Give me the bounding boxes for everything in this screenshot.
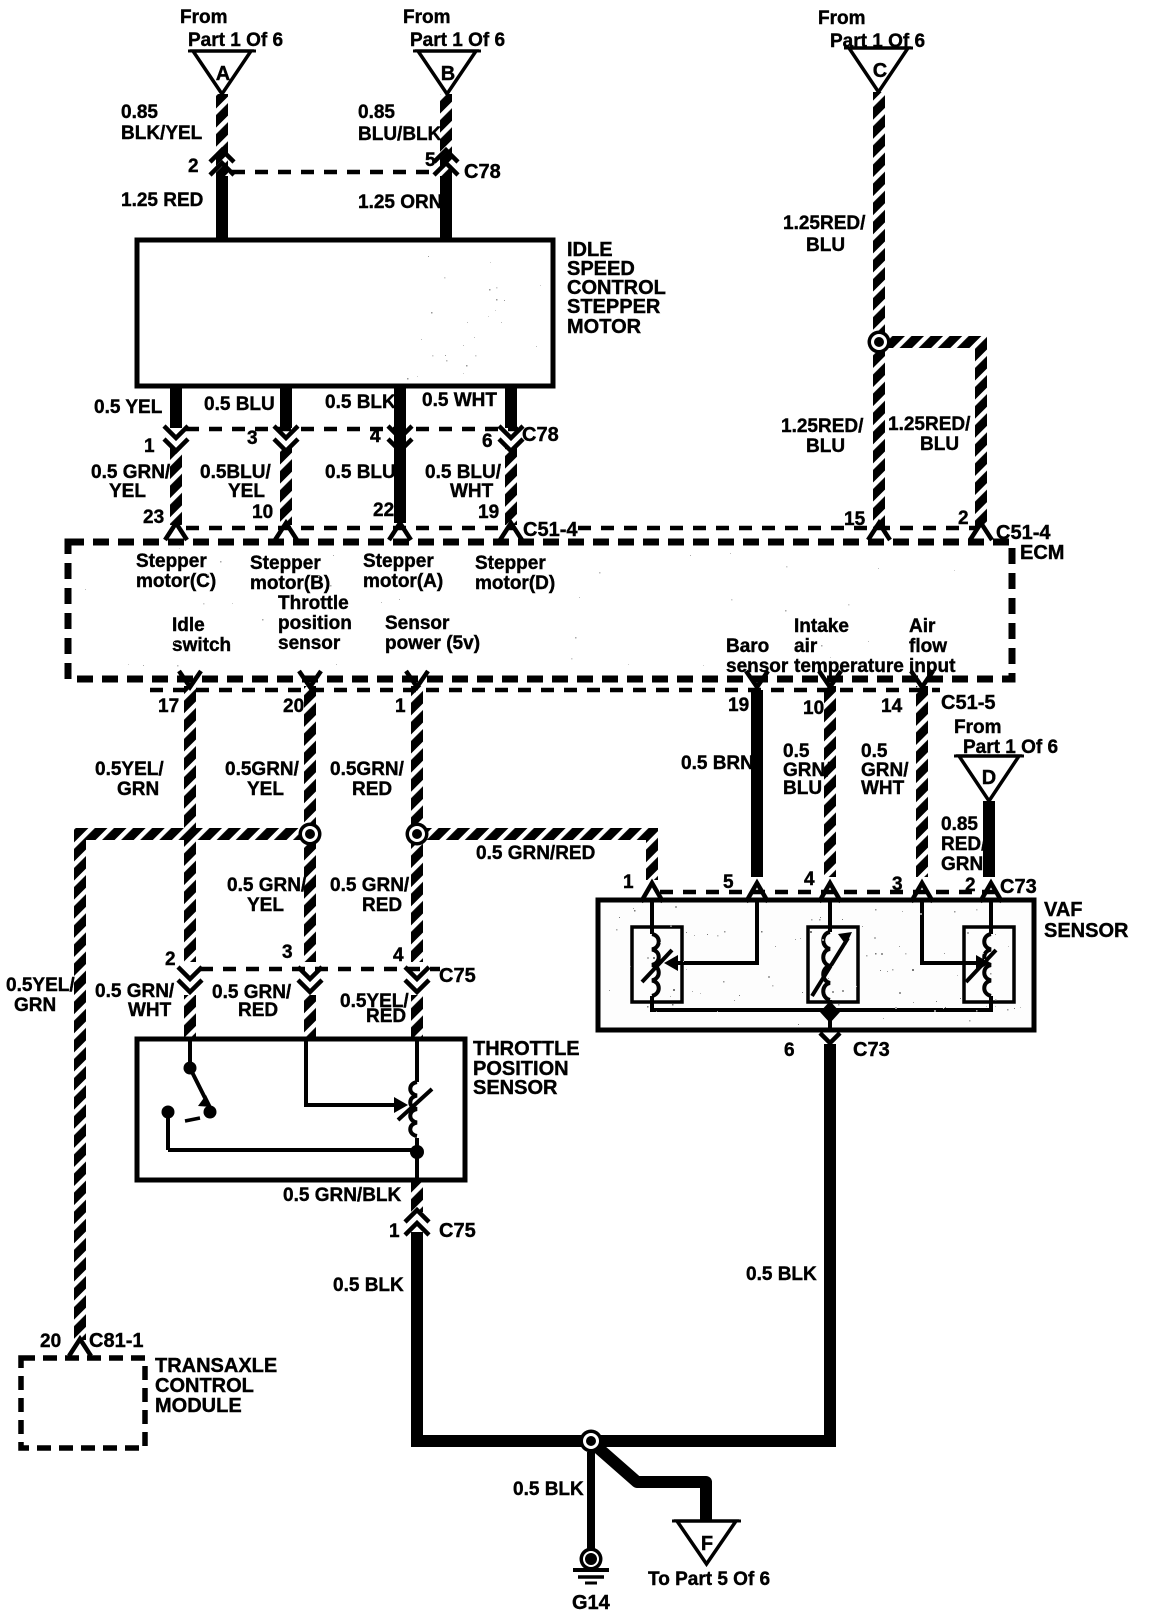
svg-text:C81-1: C81-1 (89, 1330, 143, 1352)
svg-text:17: 17 (158, 696, 179, 717)
svg-text:0.5: 0.5 (783, 741, 810, 762)
svg-text:1: 1 (144, 436, 155, 457)
svg-text:6: 6 (784, 1040, 795, 1061)
svg-text:C51-5: C51-5 (941, 692, 995, 714)
svg-text:From: From (403, 7, 451, 28)
svg-text:22: 22 (373, 500, 394, 521)
svg-text:RED: RED (366, 1006, 406, 1027)
svg-text:1: 1 (395, 696, 406, 717)
svg-text:C78: C78 (464, 161, 501, 183)
svg-text:0.5 GRN/: 0.5 GRN/ (227, 875, 307, 896)
svg-text:2: 2 (965, 875, 976, 896)
svg-text:1: 1 (623, 872, 634, 893)
svg-text:THROTTLE: THROTTLE (473, 1038, 580, 1060)
svg-text:0.5GRN/: 0.5GRN/ (225, 759, 300, 780)
svg-text:C51-4: C51-4 (523, 519, 578, 541)
svg-text:YEL: YEL (228, 481, 265, 502)
svg-text:YEL: YEL (247, 895, 284, 916)
svg-text:Stepper: Stepper (136, 551, 207, 572)
svg-text:VAF: VAF (1044, 899, 1083, 921)
svg-text:2: 2 (165, 949, 176, 970)
svg-text:4: 4 (804, 869, 815, 890)
svg-text:Stepper: Stepper (475, 553, 546, 574)
svg-text:1.25 RED: 1.25 RED (121, 190, 203, 211)
svg-text:C51-4: C51-4 (996, 522, 1051, 544)
svg-text:From: From (818, 8, 866, 29)
svg-text:WHT: WHT (128, 1000, 172, 1021)
svg-text:0.5YEL/: 0.5YEL/ (6, 975, 75, 996)
svg-text:C75: C75 (439, 965, 476, 987)
svg-text:0.5 BLK: 0.5 BLK (513, 1479, 584, 1500)
svg-text:To Part 5 Of 6: To Part 5 Of 6 (648, 1569, 770, 1590)
svg-text:motor(C): motor(C) (136, 571, 216, 592)
svg-text:0.5 GRN/: 0.5 GRN/ (330, 875, 410, 896)
svg-text:Intake: Intake (794, 616, 849, 637)
svg-text:RED: RED (352, 779, 392, 800)
svg-text:SENSOR: SENSOR (473, 1077, 558, 1099)
svg-text:G14: G14 (572, 1592, 611, 1614)
svg-text:0.5 BLU: 0.5 BLU (204, 394, 275, 415)
svg-text:D: D (982, 767, 996, 789)
svg-text:0.85: 0.85 (358, 102, 395, 123)
svg-text:1.25RED/: 1.25RED/ (781, 416, 864, 437)
svg-text:RED: RED (238, 1000, 278, 1021)
svg-text:15: 15 (844, 509, 866, 530)
svg-text:19: 19 (728, 695, 749, 716)
svg-text:position: position (278, 613, 352, 634)
svg-text:0.5 BLU: 0.5 BLU (325, 462, 396, 483)
svg-text:0.5 YEL: 0.5 YEL (94, 397, 163, 418)
svg-text:0.5 BRN: 0.5 BRN (681, 753, 754, 774)
svg-text:C78: C78 (522, 424, 559, 446)
svg-text:F: F (701, 1533, 713, 1555)
svg-text:10: 10 (803, 698, 824, 719)
svg-text:Sensor: Sensor (385, 613, 450, 634)
svg-text:MOTOR: MOTOR (567, 316, 642, 338)
svg-text:1.25RED/: 1.25RED/ (888, 414, 971, 435)
svg-text:0.5 GRN/: 0.5 GRN/ (91, 462, 171, 483)
svg-text:2: 2 (188, 156, 199, 177)
svg-text:ECM: ECM (1020, 542, 1064, 564)
svg-text:YEL: YEL (247, 779, 284, 800)
svg-text:GRN: GRN (14, 995, 56, 1016)
svg-text:0.5 BLK: 0.5 BLK (333, 1275, 404, 1296)
svg-text:0.5YEL/: 0.5YEL/ (95, 759, 164, 780)
svg-text:1.25 ORN: 1.25 ORN (358, 192, 442, 213)
svg-text:20: 20 (283, 696, 304, 717)
svg-text:C73: C73 (1000, 876, 1037, 898)
svg-text:5: 5 (723, 872, 734, 893)
svg-text:CONTROL: CONTROL (155, 1375, 254, 1397)
svg-text:SENSOR: SENSOR (1044, 920, 1129, 942)
svg-text:YEL: YEL (109, 481, 146, 502)
svg-text:0.5 GRN/: 0.5 GRN/ (95, 981, 175, 1002)
svg-text:C75: C75 (439, 1220, 476, 1242)
svg-text:sensor: sensor (278, 633, 341, 654)
svg-text:BLU: BLU (920, 434, 959, 455)
svg-text:GRN: GRN (117, 779, 159, 800)
svg-text:0.5 WHT: 0.5 WHT (422, 390, 497, 411)
svg-text:3: 3 (892, 874, 903, 895)
svg-text:From: From (180, 7, 228, 28)
svg-text:0.5 BLK: 0.5 BLK (325, 392, 396, 413)
svg-text:2: 2 (958, 508, 969, 529)
svg-text:sensor: sensor (726, 656, 789, 677)
svg-text:MODULE: MODULE (155, 1395, 242, 1417)
svg-text:0.85: 0.85 (941, 814, 978, 835)
svg-text:BLK/YEL: BLK/YEL (121, 123, 203, 144)
svg-text:Throttle: Throttle (278, 593, 349, 614)
svg-text:motor(A): motor(A) (363, 571, 443, 592)
svg-text:Stepper: Stepper (363, 551, 434, 572)
svg-text:0.5 BLK: 0.5 BLK (746, 1264, 817, 1285)
svg-text:20: 20 (40, 1331, 61, 1352)
svg-text:4: 4 (393, 945, 404, 966)
svg-text:C73: C73 (853, 1039, 890, 1061)
svg-text:0.5: 0.5 (861, 741, 888, 762)
svg-text:air: air (794, 636, 818, 657)
svg-text:0.5GRN/: 0.5GRN/ (330, 759, 405, 780)
svg-text:19: 19 (478, 502, 499, 523)
svg-text:1: 1 (389, 1221, 400, 1242)
svg-text:BLU: BLU (783, 778, 822, 799)
svg-text:1.25RED/: 1.25RED/ (783, 213, 866, 234)
svg-text:WHT: WHT (861, 778, 905, 799)
svg-text:BLU/BLK: BLU/BLK (358, 124, 442, 145)
svg-text:Stepper: Stepper (250, 553, 321, 574)
svg-text:RED/: RED/ (941, 834, 987, 855)
svg-text:input: input (909, 656, 956, 677)
svg-text:power (5v): power (5v) (385, 633, 480, 654)
svg-text:STEPPER: STEPPER (567, 296, 661, 318)
svg-text:motor(D): motor(D) (475, 573, 555, 594)
svg-text:GRN: GRN (941, 854, 983, 875)
svg-text:C: C (873, 60, 887, 82)
svg-text:flow: flow (909, 636, 947, 657)
svg-text:3: 3 (282, 942, 293, 963)
svg-text:switch: switch (172, 635, 231, 656)
svg-text:0.5 GRN/BLK: 0.5 GRN/BLK (283, 1185, 402, 1206)
svg-text:14: 14 (881, 696, 903, 717)
svg-text:6: 6 (482, 431, 493, 452)
svg-text:5: 5 (425, 150, 436, 171)
svg-text:From: From (954, 717, 1002, 738)
svg-text:3: 3 (247, 428, 258, 449)
svg-text:4: 4 (370, 426, 381, 447)
svg-text:Air: Air (909, 616, 936, 637)
svg-text:0.5 BLU/: 0.5 BLU/ (425, 462, 502, 483)
svg-text:Part 1 Of 6: Part 1 Of 6 (410, 30, 505, 51)
svg-text:23: 23 (143, 507, 164, 528)
svg-text:0.5 GRN/RED: 0.5 GRN/RED (476, 843, 595, 864)
svg-text:Idle: Idle (172, 615, 205, 636)
svg-text:10: 10 (252, 502, 273, 523)
svg-text:BLU: BLU (806, 235, 845, 256)
svg-text:BLU: BLU (806, 436, 845, 457)
svg-text:RED: RED (362, 895, 402, 916)
svg-text:0.5BLU/: 0.5BLU/ (200, 462, 271, 483)
svg-text:B: B (441, 63, 455, 85)
svg-text:Baro: Baro (726, 636, 769, 657)
svg-text:Part 1 Of 6: Part 1 Of 6 (963, 737, 1058, 758)
svg-text:TRANSAXLE: TRANSAXLE (155, 1355, 277, 1377)
svg-text:temperature: temperature (794, 656, 904, 677)
svg-text:WHT: WHT (450, 481, 494, 502)
svg-text:A: A (216, 63, 230, 85)
svg-text:0.85: 0.85 (121, 102, 158, 123)
svg-text:Part 1 Of 6: Part 1 Of 6 (188, 30, 283, 51)
svg-text:Part 1 Of 6: Part 1 Of 6 (830, 31, 925, 52)
